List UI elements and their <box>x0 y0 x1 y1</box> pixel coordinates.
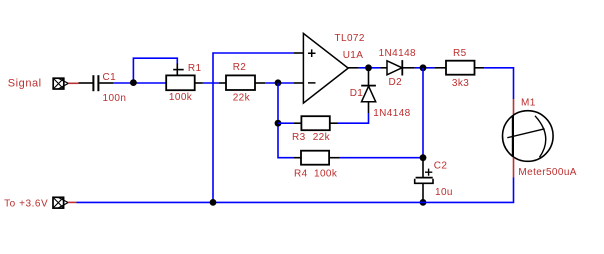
connector J2 To +3.6V <box>53 197 68 208</box>
node C junction dot (R3 tap) <box>275 120 282 127</box>
op-amp U1A <box>294 33 359 103</box>
node G junction dot (C2 bottom on rail) <box>420 199 427 206</box>
svg-text:R3: R3 <box>292 132 306 143</box>
pin stub (red) of Signal connector <box>68 82 78 84</box>
wire bias vertical (+3.6V rail to +input) <box>213 53 294 202</box>
node H junction dot (bias on rail) <box>210 199 217 206</box>
wire node E down to C2 <box>422 68 424 158</box>
meter M1 <box>503 99 554 177</box>
wire feedback vertical down to R4 row <box>278 83 293 158</box>
resistor R3 <box>293 116 337 130</box>
svg-text:Meter500uA: Meter500uA <box>518 167 576 178</box>
svg-text:22k: 22k <box>233 93 251 104</box>
wire R1 to R2 <box>203 82 219 84</box>
svg-text:C2: C2 <box>434 161 448 172</box>
svg-text:1N4148: 1N4148 <box>373 108 410 119</box>
svg-text:TL072: TL072 <box>335 33 365 44</box>
pin stub (red) of +3.6V connector <box>68 201 76 203</box>
wire node C to R3 <box>278 122 293 124</box>
svg-text:100k: 100k <box>314 168 338 179</box>
resistor R2 <box>219 75 266 90</box>
wire wiper loop from node A up over to R1 tap <box>133 58 177 82</box>
wire D2 to R5 <box>415 67 435 69</box>
svg-text:R2: R2 <box>233 62 247 73</box>
wire meter bottom to rail <box>77 177 514 202</box>
svg-text:R1: R1 <box>188 63 202 74</box>
resistor R1 (trimmer) <box>166 64 203 91</box>
node D junction dot (output) <box>365 64 372 71</box>
diode D2 <box>380 60 414 75</box>
svg-text:22k: 22k <box>313 132 331 143</box>
wire op-amp output to D2 <box>359 67 381 69</box>
resistor R5 <box>435 61 485 75</box>
svg-text:R5: R5 <box>453 48 467 59</box>
node E junction dot (D2 cathode) <box>420 64 427 71</box>
svg-text:D1: D1 <box>350 88 364 99</box>
capacitor C1 <box>93 75 113 91</box>
svg-text:Signal: Signal <box>8 78 42 90</box>
svg-text:U1A: U1A <box>343 50 364 61</box>
wire D1 to R3 <box>338 113 369 123</box>
wire C1 to node A <box>113 82 166 84</box>
svg-text:C1: C1 <box>103 72 117 83</box>
svg-text:100n: 100n <box>103 93 127 104</box>
svg-text:To +3.6V: To +3.6V <box>4 199 48 210</box>
node F junction dot (C2 top) <box>420 154 427 161</box>
connector J1 Signal <box>53 78 68 89</box>
wire R2 to -input <box>265 82 294 84</box>
svg-text:D2: D2 <box>389 77 403 88</box>
svg-text:3k3: 3k3 <box>452 78 469 89</box>
wire connector to C1 <box>79 82 93 84</box>
node B junction dot (feedback) <box>275 79 282 86</box>
wire R4 to C2 node <box>339 157 423 159</box>
svg-text:100k: 100k <box>169 92 193 103</box>
svg-text:M1: M1 <box>521 97 536 108</box>
capacitor C2 (electrolytic) <box>415 158 433 201</box>
diode D1 <box>361 68 376 113</box>
svg-text:R4: R4 <box>294 168 308 179</box>
wire R5 to meter <box>484 68 513 99</box>
svg-text:1N4148: 1N4148 <box>379 48 416 59</box>
resistor R4 <box>293 151 339 165</box>
node A junction dot <box>130 79 137 86</box>
svg-text:10u: 10u <box>435 187 453 198</box>
